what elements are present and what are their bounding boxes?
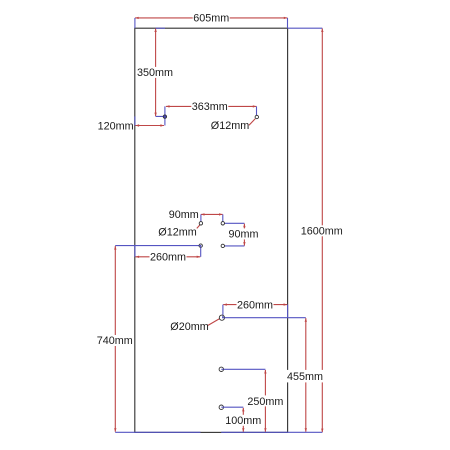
ext 260L at hole6 down [200, 246, 202, 257]
svg-text:Ø20mm: Ø20mm [170, 321, 208, 333]
ext 260L left edge [134, 246, 136, 257]
ext 260R down to hole7 [222, 305, 224, 318]
arrows 90mm horizontal [201, 213, 205, 215]
svg-text:455mm: 455mm [287, 371, 323, 383]
svg-text:363mm: 363mm [192, 101, 228, 113]
ext 90h right [222, 214, 224, 221]
ext 90v top [225, 222, 245, 224]
dim line 260mm right [223, 304, 287, 306]
ext 740 top to hole6 [115, 245, 201, 247]
ext 260R right edge [287, 305, 289, 318]
arrows 455mm [305, 318, 307, 322]
label 363mm [191, 101, 228, 112]
label 250mm [247, 395, 284, 406]
label 120mm [97, 120, 134, 131]
label 260mm right [237, 299, 274, 310]
hole 9 [219, 405, 223, 409]
dim line 740mm [114, 246, 116, 432]
dim line 1600mm [321, 28, 323, 432]
ext 350/363/120 at hole 1 [156, 106, 165, 125]
hole 7 diam20 [219, 315, 224, 320]
wire stub hole6 [199, 246, 201, 248]
svg-text:120mm: 120mm [98, 120, 134, 132]
arrows 605mm [135, 17, 139, 19]
svg-text:90mm: 90mm [169, 209, 199, 221]
dim line 100mm [242, 408, 244, 432]
ext 250 top from hole8 [221, 368, 265, 370]
svg-text:260mm: 260mm [150, 252, 186, 264]
ext 100 top from hole9 [221, 406, 243, 408]
dim line 455mm [305, 318, 307, 432]
hole 2 [255, 115, 258, 118]
label 455mm [287, 370, 324, 383]
dim line 120mm [136, 125, 165, 127]
label 90mm vertical [228, 228, 260, 239]
ext 605 left [134, 18, 136, 28]
arrows 100mm [242, 408, 244, 412]
dim line 90mm horizontal [201, 213, 223, 215]
hole 6 [199, 244, 202, 247]
svg-text:1600mm: 1600mm [301, 226, 343, 238]
ext 1600 top [288, 27, 323, 29]
dim line 90mm vertical [243, 224, 245, 246]
svg-text:Ø12mm: Ø12mm [158, 227, 196, 239]
hole 1 [163, 115, 166, 118]
leader diam20 [208, 319, 220, 326]
ext 363 right [256, 106, 258, 115]
svg-text:740mm: 740mm [97, 335, 133, 347]
label 740mm [96, 335, 133, 346]
arrows 120mm [136, 124, 140, 126]
arrows 260mm right [223, 303, 227, 305]
label 1600mm [300, 225, 343, 236]
hole 3 [199, 222, 202, 225]
leader diam12 top [249, 119, 255, 126]
arrows 350mm [154, 28, 156, 32]
hole 4 [221, 222, 224, 225]
panel outline rectangle [135, 28, 288, 432]
svg-text:250mm: 250mm [247, 396, 283, 408]
label 260mm left [150, 251, 187, 262]
svg-text:350mm: 350mm [137, 67, 173, 79]
svg-text:Ø12mm: Ø12mm [211, 120, 249, 132]
wire stub hole8 [221, 368, 223, 370]
arrows 740mm [114, 246, 116, 250]
dim line 250mm [264, 370, 266, 432]
hole 5 [221, 244, 224, 247]
dim line 605mm [135, 17, 287, 19]
dim line 260mm left [136, 256, 201, 258]
label 100mm [225, 415, 262, 426]
arrows 250mm [264, 370, 266, 374]
svg-text:260mm: 260mm [237, 299, 273, 311]
ext 90h left [200, 214, 202, 221]
ext 90v bottom [225, 245, 245, 247]
arrows 260mm left [136, 256, 140, 258]
svg-text:100mm: 100mm [225, 415, 261, 427]
svg-text:90mm: 90mm [229, 229, 259, 241]
dim line 350mm [155, 28, 157, 116]
ext 350 top edge [156, 27, 165, 29]
wire stub hole7 [223, 316, 225, 318]
arrows 90mm vertical [243, 224, 245, 228]
ext 605 right [287, 18, 289, 28]
ext 120 left edge [134, 116, 136, 125]
dim line 363mm [166, 105, 257, 107]
arrows 363mm [166, 105, 170, 107]
ext bottom long line [115, 431, 322, 433]
svg-text:605mm: 605mm [193, 13, 229, 25]
label 605mm [193, 12, 230, 23]
ext 455 top from hole7 [222, 317, 306, 319]
arrows 1600mm [321, 28, 323, 32]
label 350mm [137, 67, 174, 78]
wire stub hole9 [221, 406, 224, 408]
leader diam12 mid [197, 225, 200, 229]
hole 8 [219, 367, 223, 371]
